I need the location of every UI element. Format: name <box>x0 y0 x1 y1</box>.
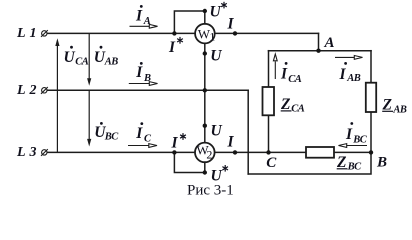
label I of W1 <box>227 16 235 33</box>
label I* of W1 <box>168 37 183 56</box>
node U* of W2 <box>203 170 207 174</box>
label I of W2 <box>227 133 235 150</box>
wire L2 return to B <box>248 152 371 174</box>
label U_AB <box>94 46 119 68</box>
voltage arrow U_AB <box>87 33 91 85</box>
wire delta top side <box>269 50 372 52</box>
voltage arrow U_CA <box>55 38 59 152</box>
svg-text:U: U <box>211 122 223 139</box>
current arrow I_AB <box>335 56 363 60</box>
current arrow I_BC <box>339 144 368 148</box>
svg-text:A: A <box>143 16 151 27</box>
label node B <box>376 155 387 171</box>
wire W2 voltage lead from L2 <box>204 90 206 144</box>
label L3 <box>16 145 37 160</box>
current arrow I_B <box>129 82 158 86</box>
svg-text:I: I <box>135 64 143 81</box>
wire W1 voltage lead to L2 <box>204 42 206 90</box>
label Z_AB <box>382 96 407 115</box>
node A <box>316 49 320 53</box>
svg-text:AB: AB <box>104 57 119 68</box>
label I_B <box>135 62 151 84</box>
svg-text:2: 2 <box>29 83 37 98</box>
label U_CA <box>64 46 89 68</box>
node C <box>266 150 270 154</box>
node U* of W1 <box>203 9 207 13</box>
node I of W1 <box>233 31 237 35</box>
wattmeter W2 <box>195 142 215 162</box>
svg-text:I: I <box>227 16 235 33</box>
wire Z_CA branch <box>268 51 270 153</box>
label node A <box>324 35 335 51</box>
wire W2 U* jumper <box>174 152 204 172</box>
label I_A <box>135 5 151 27</box>
label L1 <box>16 26 37 41</box>
label U of W2 <box>211 122 223 139</box>
label L2 <box>16 83 37 98</box>
node I* of W1 <box>172 31 176 35</box>
node I* of W2 <box>172 150 176 154</box>
wire L2 drop <box>247 90 249 174</box>
voltage arrow U_BC <box>87 90 91 146</box>
label U* of W2 <box>211 165 229 184</box>
svg-text:Рис 3-1: Рис 3-1 <box>187 183 234 199</box>
label I_BC <box>345 122 368 145</box>
label I_AB <box>339 62 361 84</box>
terminal L3 <box>41 149 48 156</box>
terminal L2 <box>41 87 48 94</box>
label I* of W2 <box>171 133 186 151</box>
svg-text:U: U <box>210 3 222 20</box>
label Z_BC <box>336 154 362 172</box>
label node C <box>266 155 277 171</box>
label Z_CA <box>280 96 305 115</box>
svg-text:I: I <box>135 8 143 25</box>
caption <box>187 183 234 199</box>
wire Z_AB branch <box>370 51 372 153</box>
svg-text:B: B <box>143 73 151 84</box>
label I_CA <box>280 62 302 85</box>
impedance Z_CA <box>263 87 275 115</box>
svg-text:U: U <box>64 49 76 66</box>
svg-text:C: C <box>266 155 277 171</box>
current arrow I_CA <box>273 54 277 79</box>
svg-text:I: I <box>280 66 288 83</box>
svg-text:I: I <box>135 125 143 142</box>
svg-text:I: I <box>171 134 179 151</box>
label U* of W1 <box>210 2 227 21</box>
wire L3 to B <box>48 151 372 153</box>
svg-text:I: I <box>339 66 347 83</box>
terminal L1 <box>41 30 48 37</box>
svg-text:AB: AB <box>346 73 361 84</box>
wire W1 U* jumper <box>174 11 204 33</box>
svg-text:1: 1 <box>209 29 215 43</box>
node U of W2 <box>203 124 207 128</box>
label U_BC <box>94 122 119 143</box>
node I of W2 <box>233 150 237 154</box>
svg-text:B: B <box>376 155 387 171</box>
impedance Z_AB <box>366 83 376 112</box>
label I_C <box>135 122 152 144</box>
junction voltage taps on L2 <box>203 88 207 92</box>
svg-text:L: L <box>16 26 26 41</box>
wire L2 <box>48 89 249 91</box>
svg-text:CA: CA <box>288 74 302 85</box>
svg-text:BC: BC <box>347 161 363 172</box>
wattmeter W1 <box>195 24 215 44</box>
svg-text:BC: BC <box>352 134 368 145</box>
svg-text:L: L <box>16 83 26 98</box>
svg-text:A: A <box>324 35 335 51</box>
wire node A drop <box>318 33 320 50</box>
current arrow I_A <box>130 24 158 28</box>
wire L1 <box>48 32 319 34</box>
node U of W1 <box>203 51 207 55</box>
svg-text:CA: CA <box>75 57 89 68</box>
svg-text:3: 3 <box>29 145 37 160</box>
svg-text:I: I <box>168 39 176 56</box>
svg-text:L: L <box>16 145 26 160</box>
svg-text:CA: CA <box>291 104 305 115</box>
node B <box>369 150 373 154</box>
svg-text:I: I <box>345 126 353 143</box>
svg-text:U: U <box>210 47 222 64</box>
svg-text:AB: AB <box>392 105 407 116</box>
svg-text:BC: BC <box>104 132 120 143</box>
current arrow I_C <box>128 144 157 148</box>
svg-text:2: 2 <box>206 148 212 162</box>
svg-text:I: I <box>227 133 235 150</box>
label U of W1 <box>210 47 222 64</box>
svg-text:1: 1 <box>30 26 37 41</box>
impedance Z_BC <box>306 147 334 158</box>
